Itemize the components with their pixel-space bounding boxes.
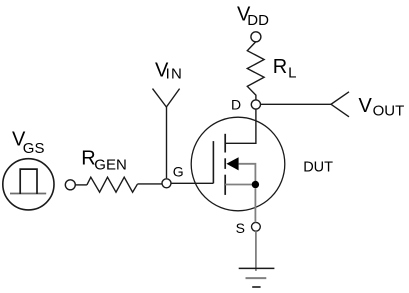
wire junction to node S (254, 188, 256, 222)
ground top bar (239, 267, 275, 269)
svg-text:GS: GS (23, 140, 45, 157)
label VGS (12, 129, 44, 158)
channel segment middle (224, 158, 226, 169)
wire node D to VOUT probe (261, 103, 332, 105)
node D (251, 100, 260, 109)
svg-text:OUT: OUT (373, 103, 405, 120)
svg-text:D: D (231, 97, 241, 113)
svg-text:GEN: GEN (94, 157, 127, 174)
drain tap wire (225, 109, 256, 143)
resistor RGEN (87, 177, 137, 192)
pulse source VGS (circle) (3, 159, 54, 210)
body arrow (226, 157, 238, 170)
terminal VGS output (65, 180, 75, 190)
ground middle bar (246, 277, 267, 279)
source tap wire (225, 184, 255, 186)
svg-text:V: V (359, 95, 373, 117)
svg-text:IN: IN (166, 66, 183, 83)
label VIN (155, 60, 183, 83)
svg-text:G: G (173, 164, 184, 180)
node S (252, 222, 261, 231)
probe VIN stem wire (166, 107, 168, 178)
node G (162, 179, 171, 188)
pulse source VGS waveform baseline (10, 193, 46, 195)
svg-text:DD: DD (247, 12, 269, 29)
wire VGS terminal to RGEN (75, 184, 87, 186)
probe VOUT arms (331, 92, 349, 117)
label RGEN (81, 148, 127, 174)
body arrow tail wire (239, 164, 256, 185)
svg-text:S: S (236, 220, 245, 236)
wire node G to gate (171, 182, 213, 184)
ground bottom bar (252, 286, 260, 288)
channel segment top (224, 134, 226, 153)
pulse source VGS waveform pulse (20, 169, 37, 194)
label VOUT (359, 95, 405, 120)
resistor RL (247, 42, 264, 100)
wire RGEN to node G (137, 183, 161, 185)
label RL (273, 56, 297, 82)
label VDD (237, 4, 269, 30)
svg-text:R: R (273, 56, 287, 78)
junction dot (252, 181, 259, 188)
supply VDD terminal (251, 32, 261, 42)
channel segment bottom (224, 175, 226, 195)
transistor DUT body circle (191, 117, 285, 211)
svg-text:DUT: DUT (303, 159, 333, 175)
wire node S to ground (255, 231, 257, 271)
probe VIN arms (153, 89, 180, 107)
svg-text:L: L (288, 64, 296, 81)
gate plate (212, 141, 214, 183)
